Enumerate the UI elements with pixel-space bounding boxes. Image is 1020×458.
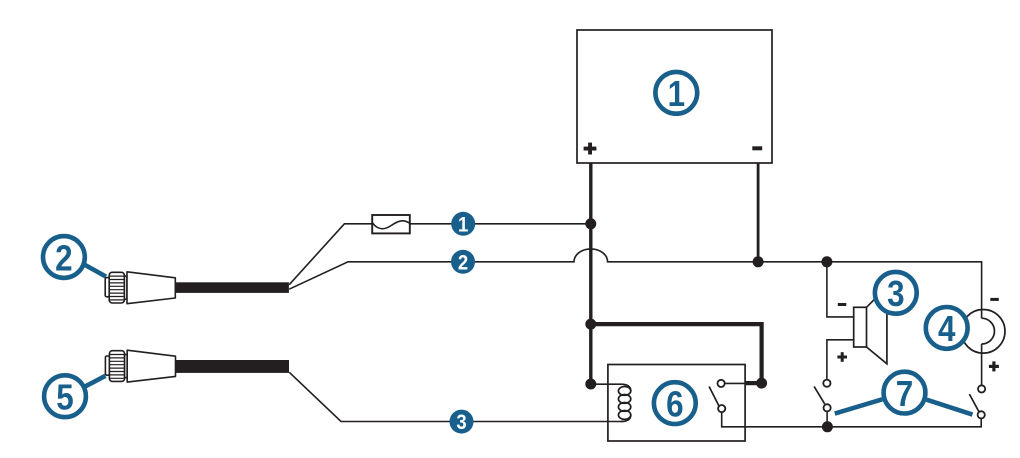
speaker + label — [837, 352, 847, 362]
switch S1 top contact — [823, 380, 830, 387]
fuse F1 — [372, 215, 410, 233]
wire: relay switch contact to box edge — [724, 382, 745, 384]
switch S2 bottom contact — [978, 411, 985, 418]
junction dot: switch S1 / rail — [822, 421, 833, 432]
svg-text:3: 3 — [887, 274, 904, 315]
relay switch bottom contact — [718, 405, 725, 412]
speaker cone — [867, 287, 887, 364]
junction dot: fuse wire / + wire — [585, 218, 596, 229]
svg-text:2: 2 — [55, 238, 72, 279]
relay K1 box (item 6) — [608, 365, 745, 442]
svg-text:2: 2 — [458, 251, 468, 274]
cable of connector 2 — [175, 282, 289, 293]
junction dot: + wire / relay branch — [585, 319, 596, 330]
plug knurled ring — [109, 272, 124, 303]
relay switch top contact — [718, 380, 725, 387]
junction dot: - wire / wire 2 — [753, 256, 764, 267]
wire: fuse to battery + junction — [410, 223, 591, 225]
wire: horn bottom to switch S2 — [981, 344, 983, 386]
switch S1 bottom contact — [824, 404, 831, 411]
wire: connector2 to fuse (thin) — [289, 224, 372, 285]
wire: switch S1 bottom link — [826, 411, 828, 427]
battery - terminal label — [752, 146, 762, 150]
relay coil — [618, 384, 630, 421]
plug tip — [105, 356, 109, 375]
svg-text:1: 1 — [458, 213, 468, 236]
svg-text:5: 5 — [56, 377, 73, 418]
plug collar — [124, 276, 127, 299]
callout 1 (battery) — [655, 72, 697, 115]
battery + terminal label — [584, 143, 597, 155]
plug knurled ring — [109, 351, 124, 382]
cable of connector 5 — [176, 360, 289, 373]
wire: speaker + to switch S1 — [827, 340, 854, 380]
thick branch: + wire to relay switch — [591, 324, 762, 383]
switch S2 lever — [969, 394, 978, 411]
callout 4 (horn) — [926, 307, 968, 350]
plug tip — [105, 278, 109, 297]
callout 2 (connector P2) — [43, 236, 85, 279]
leader line for callout 2 — [82, 263, 106, 276]
leader line for callout 5 — [85, 376, 106, 387]
leader line for callout 7 (right) — [927, 400, 973, 415]
callout 7 (switches) — [884, 372, 926, 415]
speaker - label — [838, 303, 847, 306]
wire badge 2 — [451, 250, 475, 275]
wire: speaker - branch — [827, 262, 854, 317]
plug tapered body — [127, 350, 175, 382]
horn inner half-circle — [982, 318, 995, 344]
horn - label — [990, 298, 999, 301]
plug tapered body — [127, 272, 175, 304]
connector P2 (item 2) plug — [105, 272, 175, 304]
junction dot: wire 2 / speaker branch — [821, 256, 832, 267]
junction dot: relay branch / switch contact — [756, 378, 767, 389]
battery - wire (thick vertical) — [757, 163, 760, 262]
svg-text:1: 1 — [668, 74, 685, 115]
connector P5 (item 5) plug — [105, 350, 175, 382]
switch S1 lever — [814, 386, 825, 404]
wire: relay output rail to switches — [722, 412, 982, 427]
battery B1 box — [577, 30, 772, 163]
svg-text:3: 3 — [456, 411, 466, 434]
horn H (item 4) outer circle — [961, 310, 1005, 354]
leader line for callout 7 (left) — [835, 399, 883, 413]
wire 2: connector2 to horn, with hop over battery + wire — [289, 249, 981, 318]
battery + wire (thick vertical) — [589, 163, 592, 384]
switch S2 top contact — [978, 385, 985, 392]
wire 3: connector5 to relay coil (thin) — [289, 372, 622, 421]
relay switch lever — [709, 387, 719, 406]
svg-text:7: 7 — [896, 374, 913, 415]
callout 3 (speaker) — [875, 272, 917, 315]
wire badge 3 — [450, 410, 474, 435]
wire badge 1 (fuse wire) — [451, 212, 475, 237]
callout 5 (connector P5) — [44, 375, 86, 418]
horn + label — [989, 361, 999, 371]
junction dot: + wire / coil feed — [585, 379, 596, 390]
callout 6 (relay) — [654, 382, 696, 425]
svg-text:4: 4 — [938, 309, 956, 350]
wire: coil feed from + junction — [591, 383, 621, 385]
speaker SPK (item 3) driver rect — [854, 307, 867, 347]
svg-text:6: 6 — [666, 384, 683, 425]
plug collar — [125, 355, 128, 378]
